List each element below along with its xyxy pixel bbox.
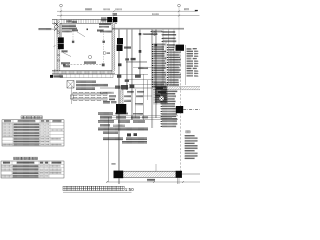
svg-text:1:50: 1:50 bbox=[125, 187, 134, 192]
